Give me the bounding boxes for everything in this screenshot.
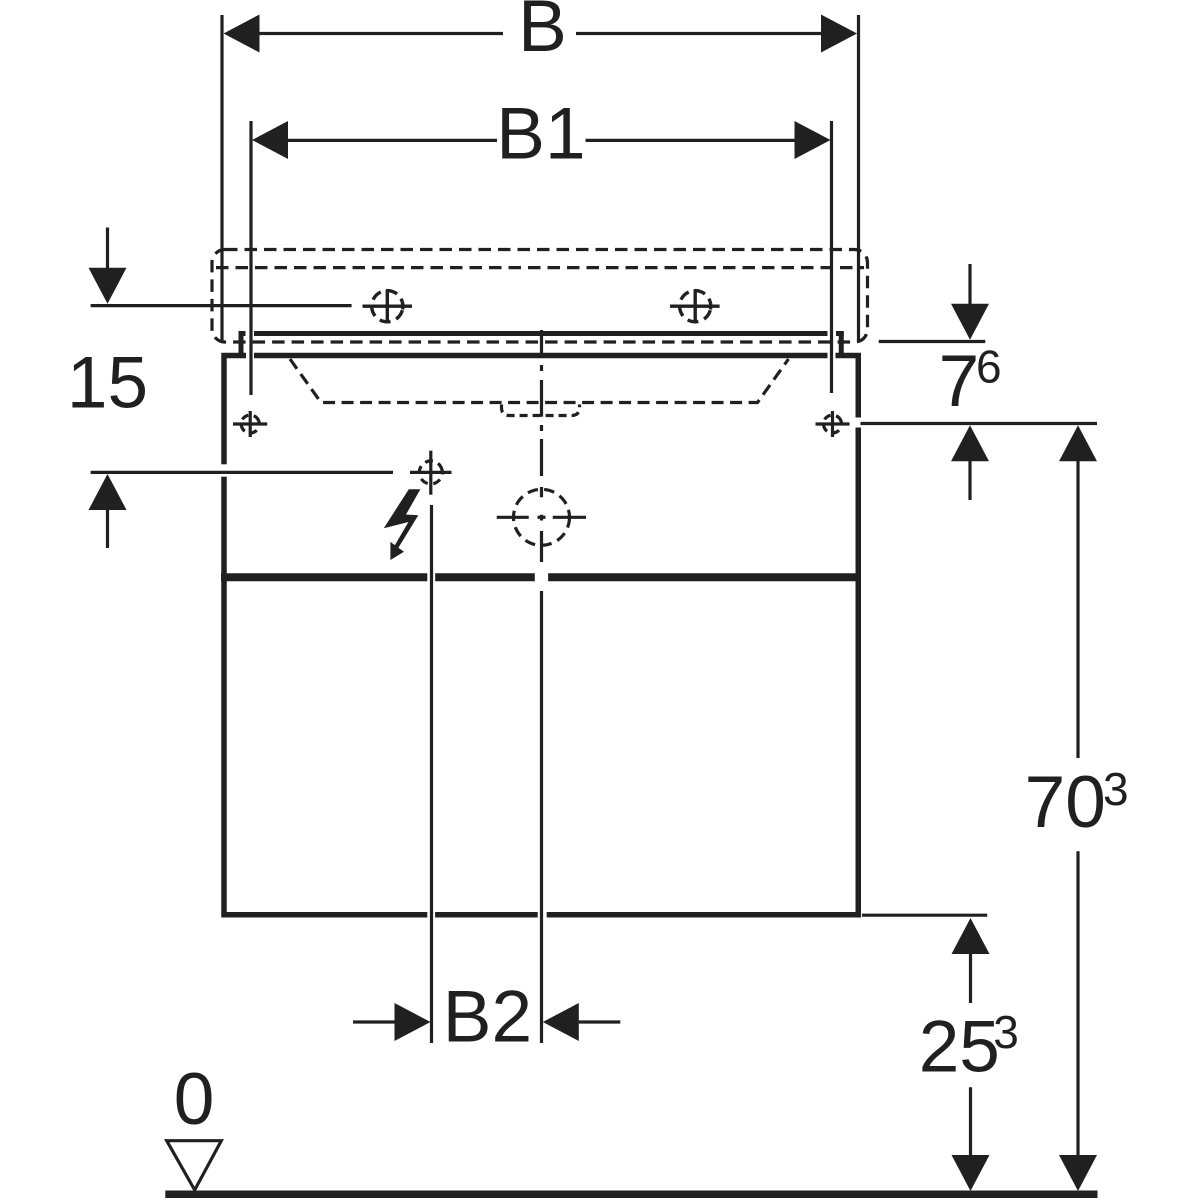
svg-text:B: B — [518, 0, 567, 67]
svg-text:B1: B1 — [496, 94, 585, 175]
svg-text:70: 70 — [1025, 762, 1106, 843]
svg-text:3: 3 — [993, 1006, 1019, 1058]
svg-text:B2: B2 — [443, 977, 532, 1058]
svg-text:0: 0 — [174, 1059, 215, 1140]
svg-text:6: 6 — [976, 341, 1002, 393]
svg-text:15: 15 — [67, 343, 148, 424]
svg-text:25: 25 — [919, 1006, 1000, 1087]
svg-text:3: 3 — [1103, 763, 1129, 815]
svg-text:7: 7 — [939, 341, 980, 422]
